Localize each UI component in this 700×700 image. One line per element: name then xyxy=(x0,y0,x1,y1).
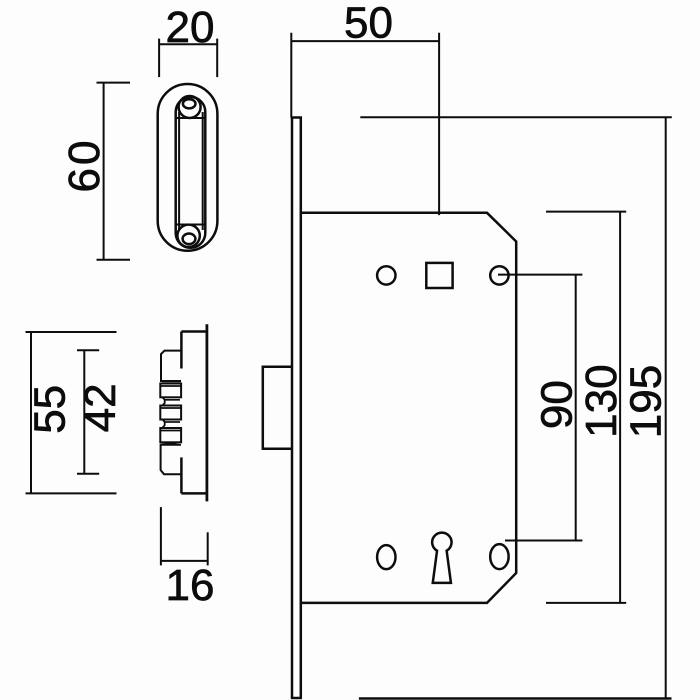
bottom screw pin xyxy=(183,234,196,245)
recess 1 xyxy=(163,397,165,405)
lock case outline xyxy=(301,213,516,603)
svg-text:55: 55 xyxy=(25,385,74,434)
dim 130 tick top xyxy=(546,211,626,213)
recess 2 xyxy=(163,420,165,428)
keyhole xyxy=(432,533,451,583)
top screw pin xyxy=(183,99,196,108)
dim 130 tick bottom xyxy=(546,602,626,604)
dim 195 ext top xyxy=(360,116,672,118)
dim 42 tick bottom xyxy=(77,473,99,475)
bottom oval right xyxy=(490,544,508,569)
dim 55 line xyxy=(30,332,32,493)
bottom screw head xyxy=(177,225,199,247)
dim 90 line xyxy=(575,275,577,541)
magnet housing top block xyxy=(161,351,181,381)
dim 50 ext left xyxy=(290,33,292,118)
dim 55 tick top xyxy=(26,331,117,333)
slot cross line lower xyxy=(177,224,205,226)
slot inner right line xyxy=(202,112,204,230)
dim 60 tick bottom xyxy=(97,259,131,261)
side case left edge upper xyxy=(180,332,183,369)
top hole left xyxy=(377,266,395,284)
dim 90 ext bottom xyxy=(505,540,582,542)
tab 1 bevel xyxy=(160,385,181,387)
dim 16 ext right xyxy=(207,532,209,565)
bottom block top inner line xyxy=(161,444,181,446)
svg-text:60: 60 xyxy=(60,138,109,193)
slot cross line upper xyxy=(177,117,205,119)
dim 90 ext top xyxy=(498,274,582,276)
faceplate top cap xyxy=(291,116,302,119)
dim 20 line xyxy=(159,43,217,45)
dim 195 ext bottom xyxy=(359,697,672,700)
tab 2 xyxy=(160,406,181,420)
svg-text:195: 195 xyxy=(621,365,670,438)
side case bottom edge xyxy=(181,492,206,495)
dim 50 line xyxy=(291,40,439,42)
faceplate slot stadium xyxy=(176,97,206,248)
faceplate outer stadium xyxy=(158,84,218,251)
top block bottom inner line xyxy=(162,382,181,384)
svg-text:16: 16 xyxy=(166,561,215,610)
dim 55 tick bottom xyxy=(26,492,117,494)
tab 1 xyxy=(160,384,181,398)
faceplate left edge xyxy=(291,118,294,699)
svg-text:130: 130 xyxy=(577,364,626,437)
dim 16 line xyxy=(161,560,208,562)
dim 20 ext right xyxy=(216,39,218,78)
slot inner left line xyxy=(178,112,180,230)
recess 2 lines xyxy=(165,421,180,423)
dim 195 line xyxy=(665,117,667,698)
faceplate bottom cap xyxy=(291,697,302,700)
bottom oval left xyxy=(377,545,395,569)
spindle square xyxy=(426,263,452,288)
top screw head xyxy=(179,96,201,118)
recess 1 lines xyxy=(165,399,180,401)
dim 130 line xyxy=(619,212,621,603)
faceplate right edge xyxy=(300,118,303,699)
side faceplate edge xyxy=(205,324,208,501)
dim 42 line xyxy=(83,350,85,473)
tab 2 bevel xyxy=(160,407,181,409)
dim 60 line xyxy=(103,83,105,260)
dim 16 ext left xyxy=(160,507,162,565)
bottom block xyxy=(161,442,181,474)
top hole right xyxy=(490,266,508,284)
dim 50 ext right xyxy=(438,33,440,215)
svg-text:90: 90 xyxy=(533,380,582,429)
deadbolt xyxy=(263,367,292,449)
tab 3 xyxy=(160,428,181,442)
dim 60 tick top xyxy=(97,82,131,84)
dim 20 ext left xyxy=(158,39,160,78)
side case left edge lower xyxy=(180,457,183,493)
side case top edge xyxy=(181,330,206,333)
dim 42 tick top xyxy=(77,349,99,351)
tab 3 bevel xyxy=(160,430,181,432)
